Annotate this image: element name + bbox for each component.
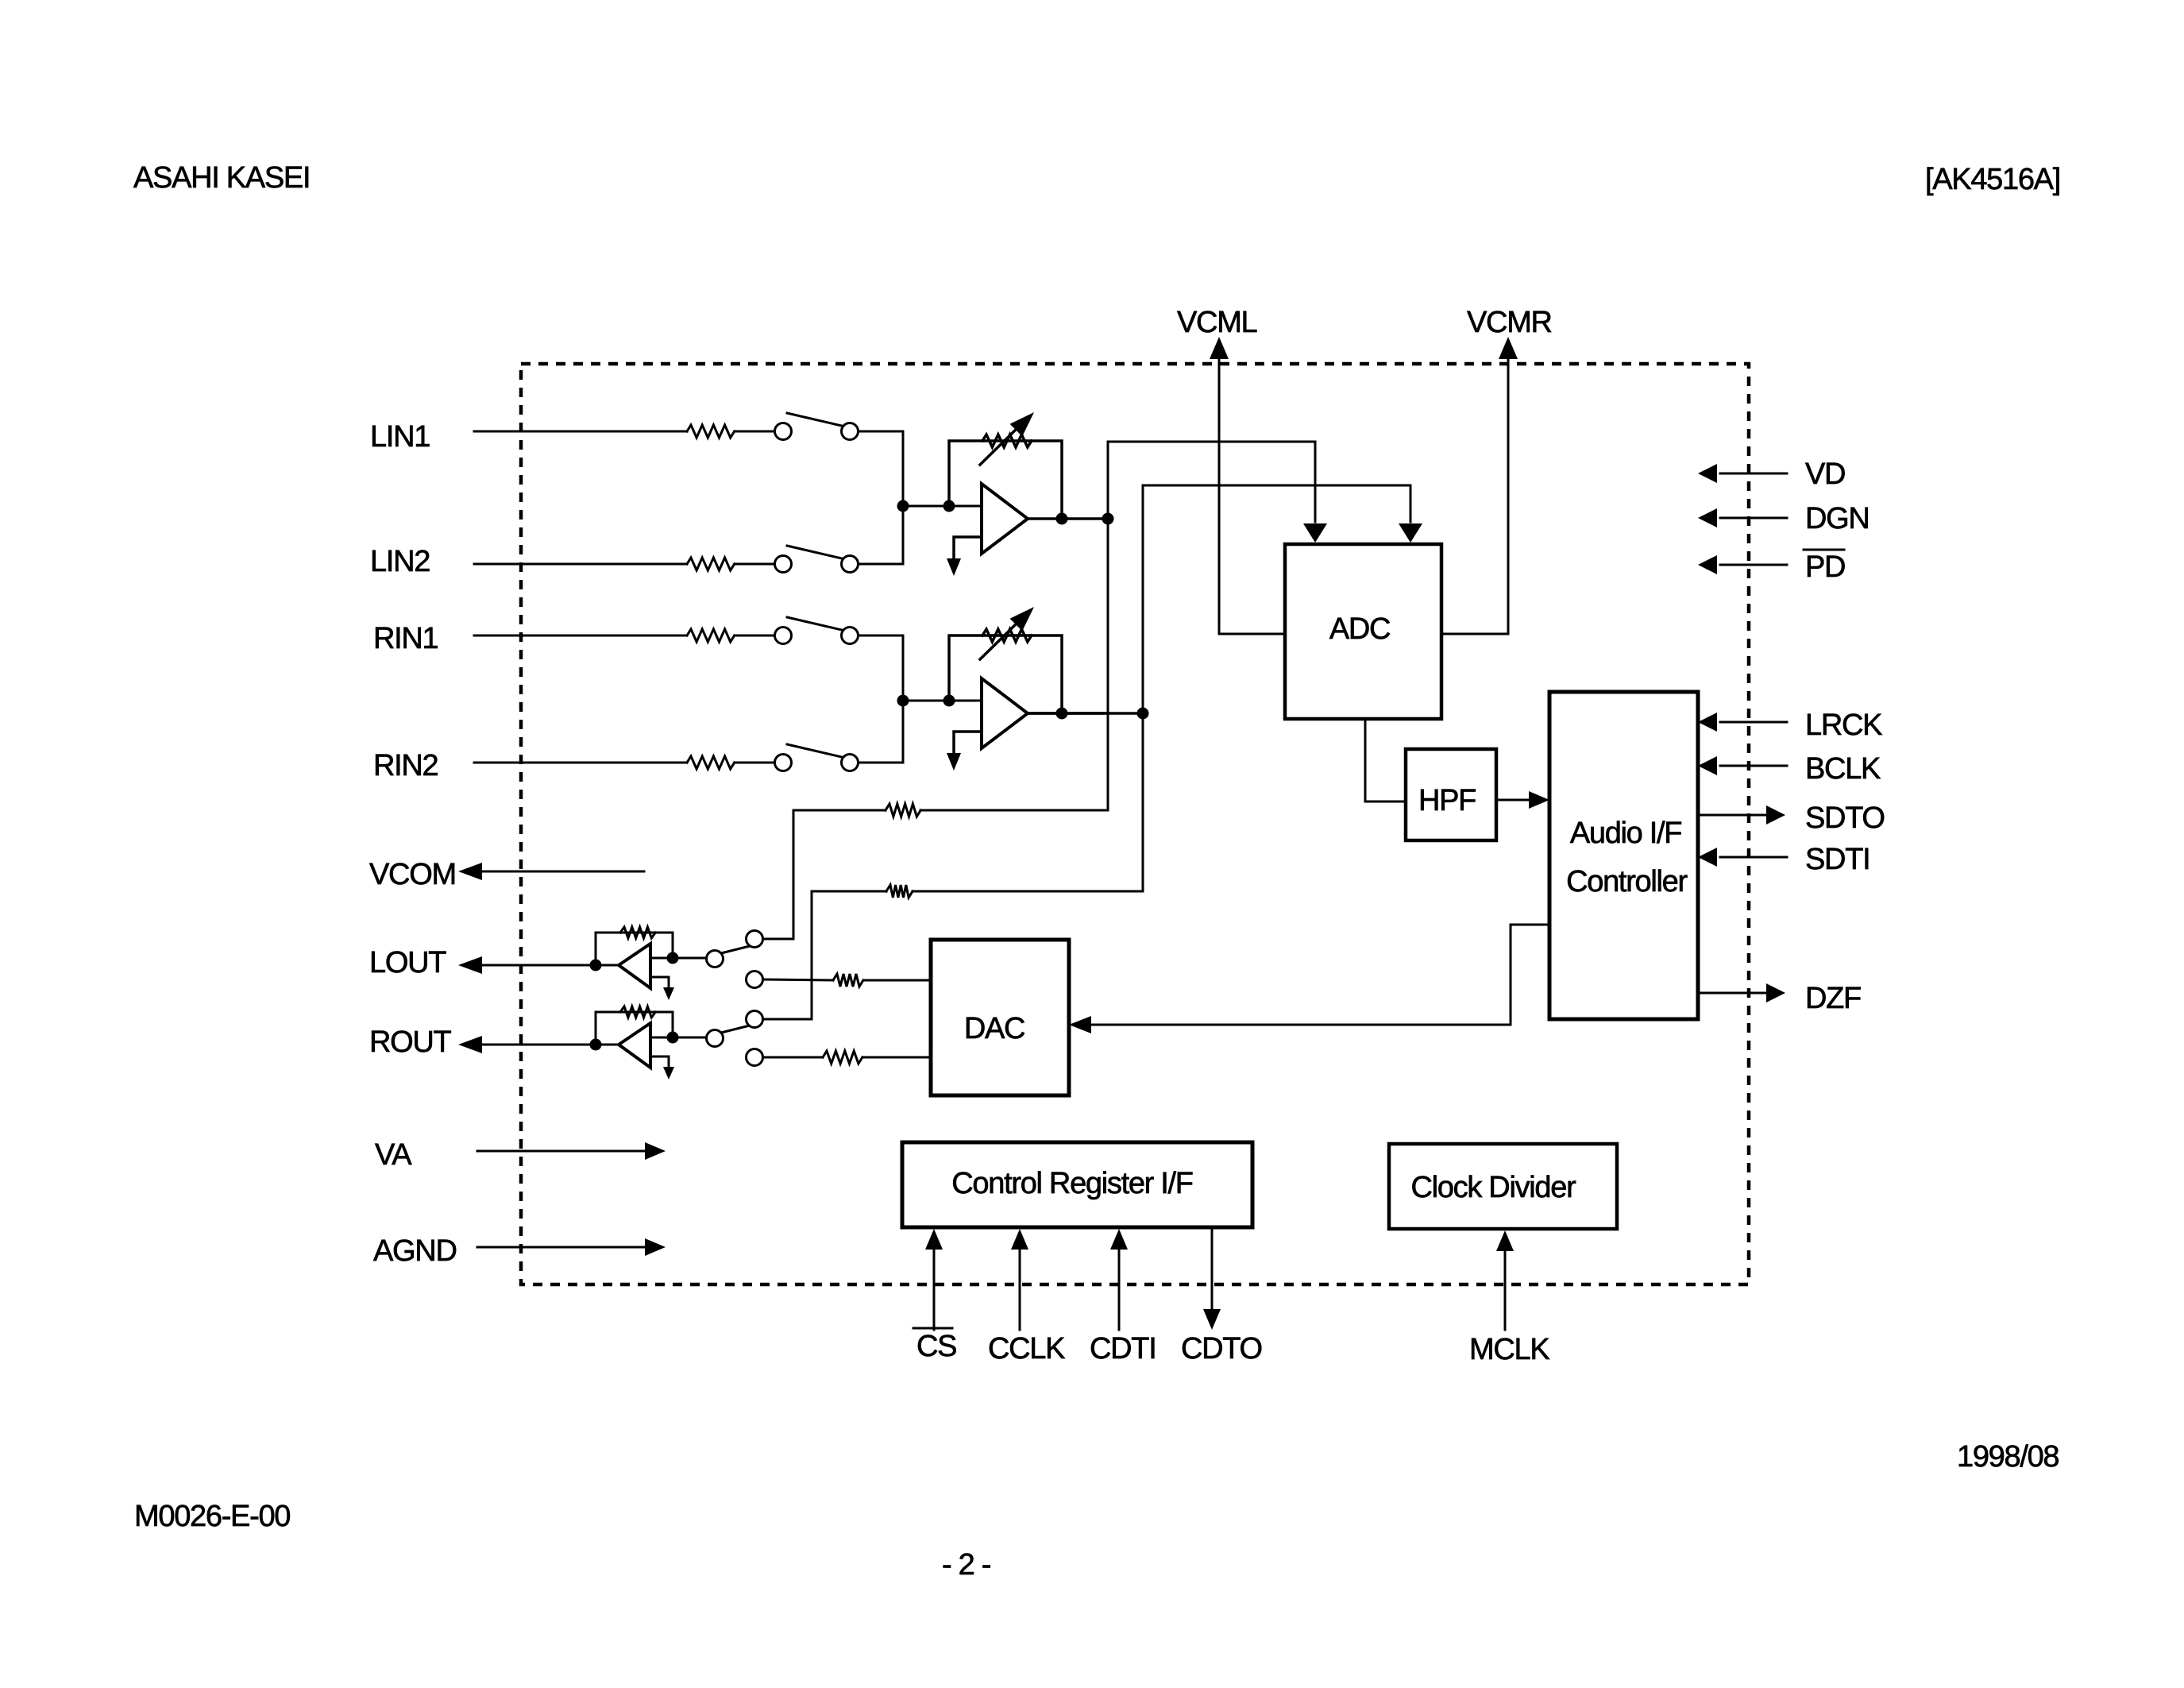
svg-text:PD: PD [1805, 550, 1845, 584]
svg-text:DAC: DAC [964, 1012, 1024, 1045]
svg-text:VCOM: VCOM [369, 858, 456, 891]
svg-text:HPF: HPF [1418, 784, 1476, 817]
svg-text:1998/08: 1998/08 [1957, 1440, 2059, 1474]
svg-text:LIN1: LIN1 [370, 420, 430, 454]
svg-text:CDTI: CDTI [1090, 1332, 1156, 1365]
svg-text:SDTI: SDTI [1805, 843, 1870, 876]
svg-text:LIN2: LIN2 [370, 545, 430, 578]
svg-text:M0026-E-00: M0026-E-00 [134, 1500, 290, 1533]
svg-text:VCML: VCML [1177, 306, 1257, 339]
svg-text:CS: CS [916, 1330, 956, 1363]
svg-text:ASAHI KASEI: ASAHI KASEI [133, 161, 310, 195]
svg-text:ADC: ADC [1329, 612, 1390, 646]
svg-text:DZF: DZF [1805, 982, 1861, 1015]
svg-text:SDTO: SDTO [1805, 802, 1885, 835]
svg-text:LOUT: LOUT [369, 946, 446, 979]
svg-text:- 2 -: - 2 - [942, 1548, 990, 1582]
svg-text:RIN2: RIN2 [373, 749, 438, 782]
svg-text:VD: VD [1805, 458, 1845, 491]
svg-text:AGND: AGND [373, 1234, 457, 1268]
svg-text:Audio I/F: Audio I/F [1570, 817, 1681, 850]
svg-text:DGN: DGN [1805, 502, 1870, 535]
svg-text:BCLK: BCLK [1805, 752, 1881, 786]
svg-text:VCMR: VCMR [1467, 306, 1552, 339]
svg-text:LRCK: LRCK [1805, 709, 1882, 742]
svg-text:Control Register I/F: Control Register I/F [951, 1167, 1193, 1200]
svg-text:CDTO: CDTO [1181, 1332, 1262, 1365]
svg-text:CCLK: CCLK [988, 1332, 1065, 1365]
svg-text:ROUT: ROUT [369, 1026, 452, 1059]
svg-text:VA: VA [375, 1138, 412, 1172]
svg-text:Clock Divider: Clock Divider [1411, 1171, 1577, 1204]
svg-text:MCLK: MCLK [1469, 1333, 1549, 1366]
svg-text:Controller: Controller [1566, 865, 1688, 898]
svg-text:[AK4516A]: [AK4516A] [1925, 163, 2060, 196]
svg-text:RIN1: RIN1 [373, 622, 438, 655]
